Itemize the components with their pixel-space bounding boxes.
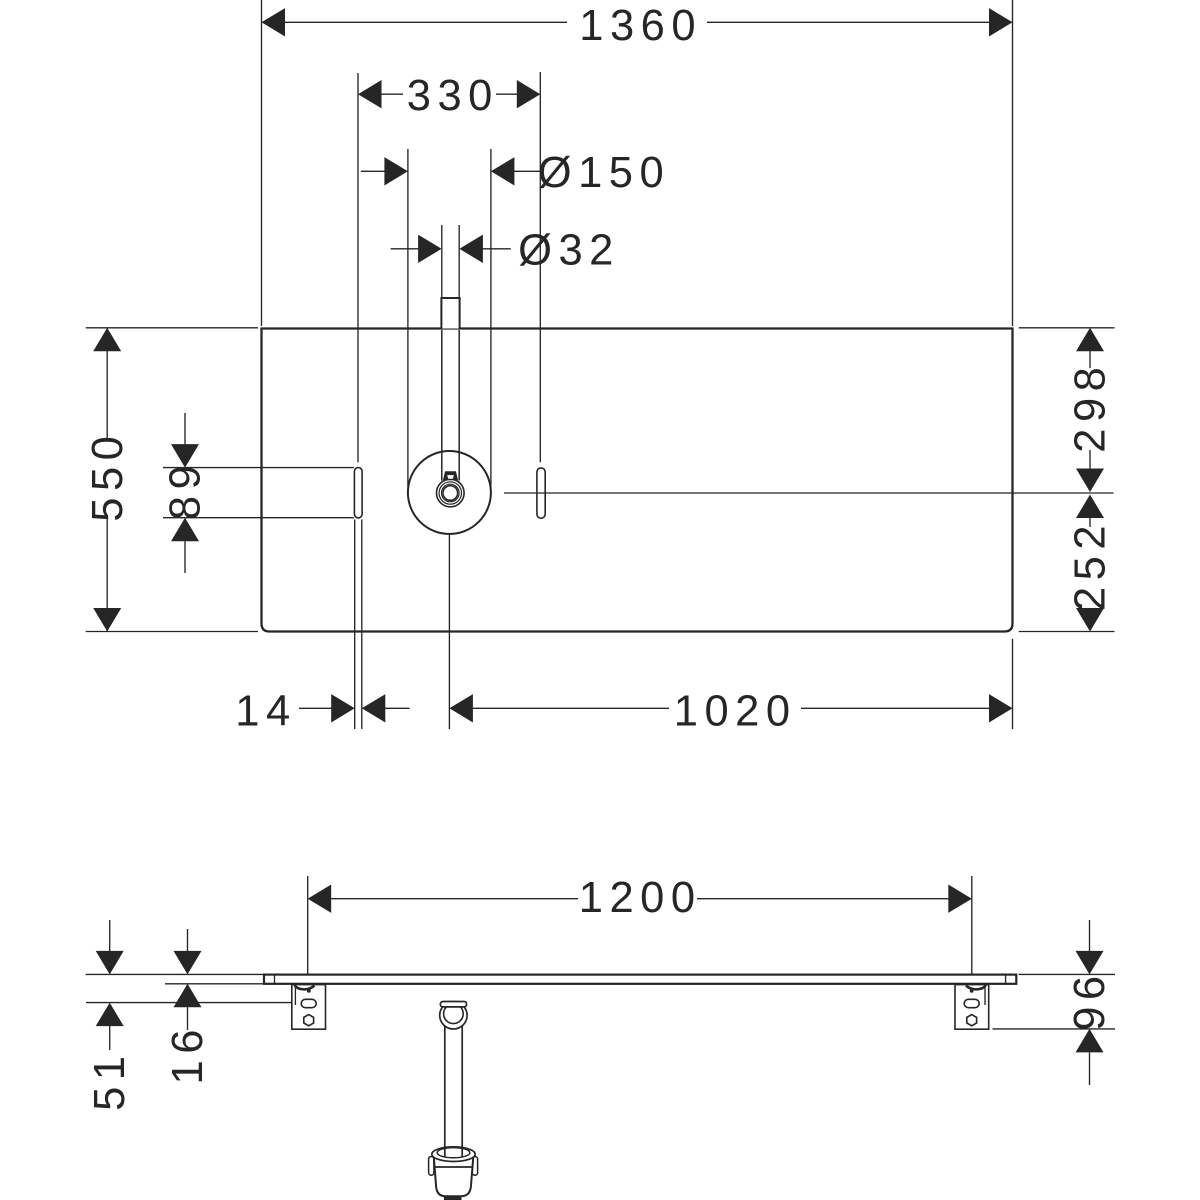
- plate end tick right: [1005, 976, 1007, 984]
- witness line 330 right: [539, 72, 541, 462]
- left mounting slot: [354, 468, 362, 518]
- trap clips: [429, 1157, 434, 1176]
- dimension 1200: [308, 874, 972, 922]
- drain recess circle Ø150: [408, 451, 491, 534]
- trap bottom stub: [444, 1196, 462, 1200]
- dimension 16 (vertical): [164, 929, 212, 1084]
- dimension 550 (vertical): [84, 328, 132, 632]
- drain hook flange: [440, 1002, 466, 1007]
- dimension 89 (vertical, arrows outside): [161, 413, 209, 573]
- svg-text:51: 51: [86, 1050, 134, 1111]
- witness extension of plate top to left: [86, 973, 264, 975]
- right mounting slot: [537, 468, 545, 518]
- right wall bracket: [955, 985, 989, 1030]
- witness line 96 top: [1019, 973, 1115, 975]
- faucet hole marker on top edge: [441, 298, 459, 329]
- witness line 89 top: [163, 467, 354, 469]
- svg-text:Ø150: Ø150: [538, 149, 670, 197]
- svg-text:1020: 1020: [674, 688, 797, 736]
- svg-text:96: 96: [1066, 969, 1114, 1030]
- plate end tick left: [274, 976, 276, 984]
- trap collar: [432, 1147, 475, 1162]
- svg-text:89: 89: [161, 459, 209, 520]
- witness line 89 bottom: [163, 517, 354, 519]
- dimension Ø32: [391, 227, 620, 275]
- drain fitting clip (dark): [443, 471, 458, 480]
- dimension 252 (vertical): [1067, 495, 1115, 632]
- dimension Ø150: [361, 149, 670, 197]
- svg-text:1360: 1360: [579, 2, 702, 50]
- witness line 298 top right: [1019, 327, 1115, 329]
- witness line 1360 left: [261, 0, 263, 326]
- dimension 96 (vertical): [1066, 920, 1114, 1085]
- witness line 1020 right: [1012, 639, 1014, 729]
- dimension 1020: [449, 688, 1012, 736]
- witness lines 14 (slot edges extended): [354, 520, 356, 730]
- dimension 298 (vertical): [1067, 328, 1115, 492]
- drain pipe hidden lines inside basin: [441, 330, 443, 481]
- drain hook ring: [440, 1002, 467, 1029]
- svg-text:298: 298: [1067, 361, 1115, 453]
- svg-text:14: 14: [235, 688, 296, 736]
- witness line Ø150 right: [490, 149, 492, 487]
- trap cup body: [434, 1158, 473, 1196]
- witness line Ø150 left: [407, 149, 409, 487]
- witness line Ø32 left: [441, 225, 443, 298]
- witness line 330 left: [357, 73, 359, 462]
- washbasin plate (side view): [264, 975, 1016, 984]
- witness line 1360 right: [1012, 0, 1014, 326]
- witness line 550 top: [86, 327, 258, 329]
- svg-text:1200: 1200: [579, 874, 702, 922]
- left wall bracket: [292, 985, 326, 1030]
- witness line 1200 right: [971, 876, 973, 974]
- dimension 1360: [262, 2, 1013, 50]
- svg-text:16: 16: [164, 1023, 212, 1084]
- svg-text:330: 330: [407, 72, 499, 120]
- drain pipe (side view): [445, 1024, 462, 1157]
- witness line Ø32 right: [458, 225, 460, 298]
- trap cup clamp line: [435, 1166, 473, 1168]
- dimension 51 (vertical): [86, 920, 134, 1111]
- witness line 1200 left: [307, 876, 309, 974]
- svg-text:Ø32: Ø32: [518, 227, 620, 275]
- dimension 330: [358, 72, 540, 120]
- witness line 1020 left (from drain center): [448, 535, 450, 729]
- drain fitting rings: [437, 479, 465, 507]
- dimension 14 (arrows outside): [235, 688, 409, 736]
- svg-text:252: 252: [1067, 519, 1115, 611]
- witness line 51 bottom: [86, 1002, 301, 1004]
- witness line bottom right: [1019, 631, 1115, 633]
- witness line 16 bottom: [165, 983, 264, 985]
- horizontal centerline through drain: [504, 492, 1114, 494]
- witness line 96 bottom: [993, 1028, 1116, 1030]
- svg-text:550: 550: [84, 430, 132, 522]
- witness line 550 bottom: [86, 631, 258, 633]
- basin outline (top view, rounded bottom corners): [262, 329, 1013, 632]
